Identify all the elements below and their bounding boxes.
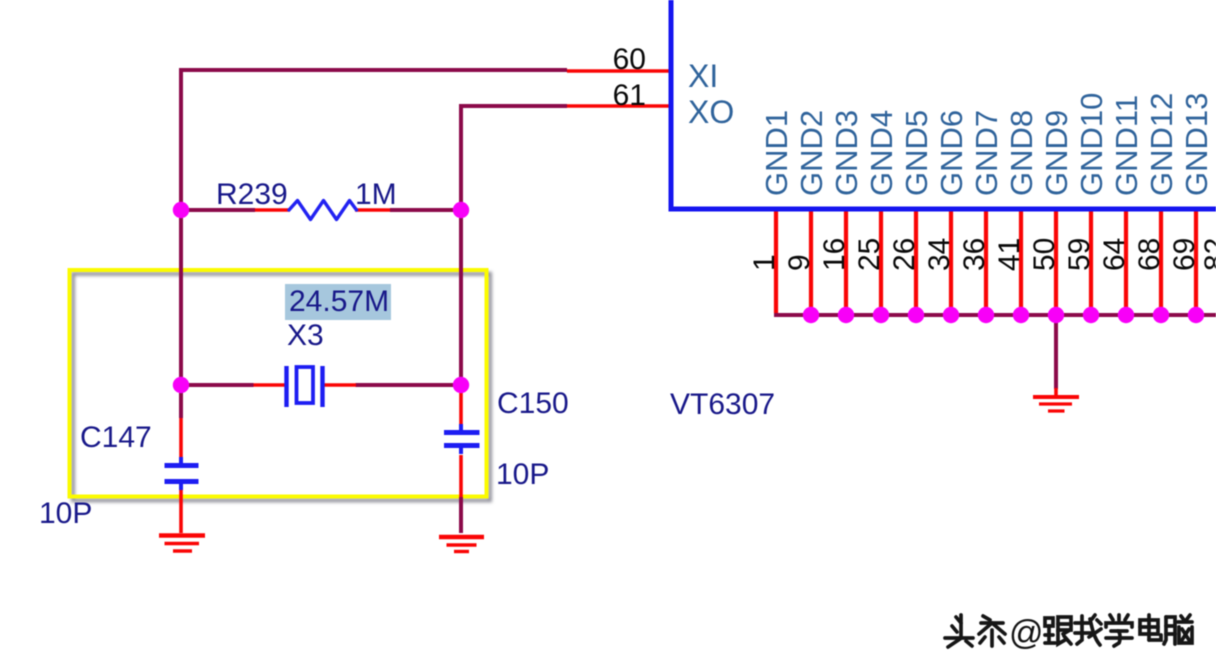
svg-text:82: 82: [1199, 238, 1216, 271]
svg-text:@: @: [1009, 614, 1044, 652]
svg-text:GND10: GND10: [1074, 93, 1109, 196]
svg-text:1M: 1M: [355, 178, 397, 211]
svg-text:41: 41: [993, 238, 1026, 271]
svg-text:64: 64: [1098, 238, 1131, 271]
svg-text:26: 26: [888, 238, 921, 271]
svg-text:GND9: GND9: [1039, 110, 1074, 196]
svg-text:24.57M: 24.57M: [289, 285, 389, 318]
svg-text:68: 68: [1133, 238, 1166, 271]
svg-text:GND13: GND13: [1179, 93, 1214, 196]
svg-text:GND11: GND11: [1109, 95, 1144, 196]
svg-text:9: 9: [783, 254, 816, 271]
svg-text:X3: X3: [287, 319, 324, 352]
svg-text:C150: C150: [497, 387, 569, 420]
svg-text:1: 1: [748, 254, 781, 271]
svg-text:GND3: GND3: [829, 110, 864, 196]
svg-text:50: 50: [1028, 238, 1061, 271]
svg-text:GND7: GND7: [969, 110, 1004, 196]
svg-text:34: 34: [923, 238, 956, 271]
svg-text:GND2: GND2: [794, 110, 829, 196]
svg-text:59: 59: [1063, 238, 1096, 271]
svg-text:C147: C147: [80, 421, 152, 454]
svg-text:61: 61: [613, 79, 646, 112]
svg-text:60: 60: [613, 43, 646, 76]
svg-text:10P: 10P: [496, 458, 549, 491]
svg-text:R239: R239: [216, 178, 288, 211]
svg-text:GND12: GND12: [1144, 93, 1179, 196]
svg-text:XI: XI: [688, 58, 718, 94]
svg-text:XO: XO: [688, 94, 734, 130]
svg-text:GND4: GND4: [864, 110, 899, 196]
svg-text:25: 25: [853, 238, 886, 271]
svg-text:GND6: GND6: [934, 110, 969, 196]
svg-text:69: 69: [1168, 238, 1201, 271]
svg-text:16: 16: [818, 238, 851, 271]
svg-text:10P: 10P: [39, 497, 92, 530]
svg-text:GND1: GND1: [759, 110, 794, 196]
svg-text:36: 36: [958, 238, 991, 271]
svg-text:GND8: GND8: [1004, 110, 1039, 196]
svg-text:GND5: GND5: [899, 110, 934, 196]
svg-text:VT6307: VT6307: [670, 388, 775, 421]
